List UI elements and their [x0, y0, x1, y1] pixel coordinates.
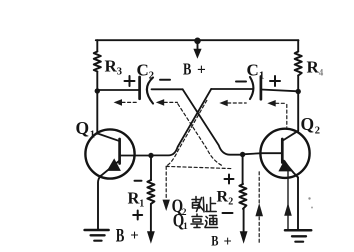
resistor R2	[239, 184, 246, 209]
label B+ (bottom left)	[116, 225, 139, 246]
label + (R1 bottom)	[133, 211, 142, 220]
wire Q2 base lead	[243, 153, 283, 154]
svg-text:C: C	[137, 61, 149, 80]
label C2	[137, 61, 155, 82]
label + (R2 top)	[225, 175, 234, 184]
dashed loop horizontal under base wires	[166, 166, 232, 168]
wire C1 left plate to crossover bend	[211, 88, 252, 90]
wire R2 to B+ arrow	[243, 209, 245, 232]
svg-text:1: 1	[90, 130, 95, 141]
B+ supply arrow (top)	[193, 42, 201, 59]
svg-text:+: +	[224, 234, 232, 250]
label R2	[217, 189, 234, 208]
svg-text:4: 4	[319, 68, 324, 78]
dashed discharge path from C1 down to Q1 base area	[166, 100, 207, 166]
label - (C2 right)	[160, 79, 170, 81]
wire node to C2	[97, 89, 139, 91]
label R1	[128, 189, 145, 210]
svg-text:Q: Q	[301, 114, 315, 134]
wire Q2 base node to R2	[242, 155, 244, 185]
label B+ (top)	[183, 61, 206, 79]
svg-text:2: 2	[149, 71, 154, 82]
label Q1 conducting text (Chinese, line 2)	[173, 210, 218, 232]
label B+ (bottom right)	[211, 232, 232, 250]
resistor R3	[94, 52, 101, 72]
wire Q2 emitter to ground	[297, 177, 299, 229]
svg-text:R: R	[307, 58, 320, 77]
wire cross-coupling C1 to Q1 base (diagonal)	[151, 89, 211, 155]
B+ return arrow (under R1)	[147, 231, 155, 244]
current arrow into C1 right plate (dashed)	[267, 100, 287, 127]
wire Q1 base lead	[120, 155, 151, 157]
svg-text:R: R	[105, 57, 118, 76]
current arrow into C1 left plate (dashed)	[219, 100, 246, 107]
wire R3 to collector node	[96, 72, 98, 92]
wire Q1 base node to R1	[150, 156, 152, 181]
svg-text:+: +	[130, 228, 139, 244]
wire node to Q1 collector	[96, 91, 98, 134]
current arrow into C2 right plate (dashed)	[156, 99, 222, 165]
node Q2 collector junction	[296, 89, 301, 94]
speck artifacts	[308, 197, 313, 208]
ground (right)	[285, 230, 311, 241]
wire R4 to node	[297, 76, 299, 92]
wire R1 to B+ arrow	[150, 204, 152, 232]
svg-text:1: 1	[139, 199, 144, 210]
label - (C1 left)	[236, 81, 246, 83]
label + (C1 right)	[270, 76, 280, 86]
svg-text:R: R	[217, 189, 229, 206]
resistor R1	[147, 180, 154, 204]
wire node to Q2 collector	[297, 92, 299, 131]
resistor R4	[295, 52, 302, 76]
wire C1 to right collector node	[261, 90, 298, 92]
ground (left)	[85, 230, 109, 241]
node Q2 base junction	[240, 152, 245, 157]
label Q2 cutoff text (Chinese, line 1)	[172, 195, 217, 217]
dashed up arrow beside R2	[255, 172, 263, 243]
label Q2	[301, 114, 321, 137]
current indicator up arrow on Q2 emitter	[284, 167, 292, 229]
svg-text:B: B	[183, 61, 192, 79]
wire right vertical from rail to R4	[297, 40, 299, 51]
svg-text:B: B	[211, 232, 218, 249]
dashed down arrow beside text	[163, 166, 170, 211]
wire Q1 emitter to ground	[98, 176, 101, 230]
capacitor C2	[140, 77, 153, 104]
B+ return arrow (under R2)	[240, 231, 248, 244]
label - (R2 bottom)	[223, 212, 233, 214]
node B+ feed junction on top rail	[194, 38, 201, 45]
svg-text:3: 3	[117, 67, 122, 78]
label Q1	[76, 118, 96, 141]
wire cross-coupling C2 to Q2 base (diagonal)	[183, 89, 243, 154]
transistor Q1	[85, 129, 134, 178]
label R4	[307, 58, 324, 78]
svg-text:2: 2	[315, 126, 320, 137]
node Q1 collector junction	[95, 88, 100, 93]
label R3	[105, 57, 123, 78]
svg-text:Q: Q	[76, 118, 90, 138]
wire left vertical from rail to R3	[96, 40, 98, 51]
transistor Q2	[260, 129, 309, 178]
capacitor C1	[250, 77, 261, 100]
svg-text:C: C	[247, 61, 259, 80]
svg-text:1: 1	[183, 222, 188, 232]
label + (C2 left)	[125, 76, 135, 86]
wire top supply rail	[96, 39, 299, 41]
svg-text:+: +	[197, 62, 206, 79]
svg-text:B: B	[116, 225, 125, 246]
current arrow into collector node (dashed, left)	[114, 99, 137, 106]
label - (R1 top)	[135, 180, 142, 182]
node Q1 base junction	[148, 153, 153, 158]
label C1	[247, 61, 265, 82]
wire C2 to crossover bend	[152, 88, 183, 90]
svg-text:2: 2	[228, 197, 233, 208]
